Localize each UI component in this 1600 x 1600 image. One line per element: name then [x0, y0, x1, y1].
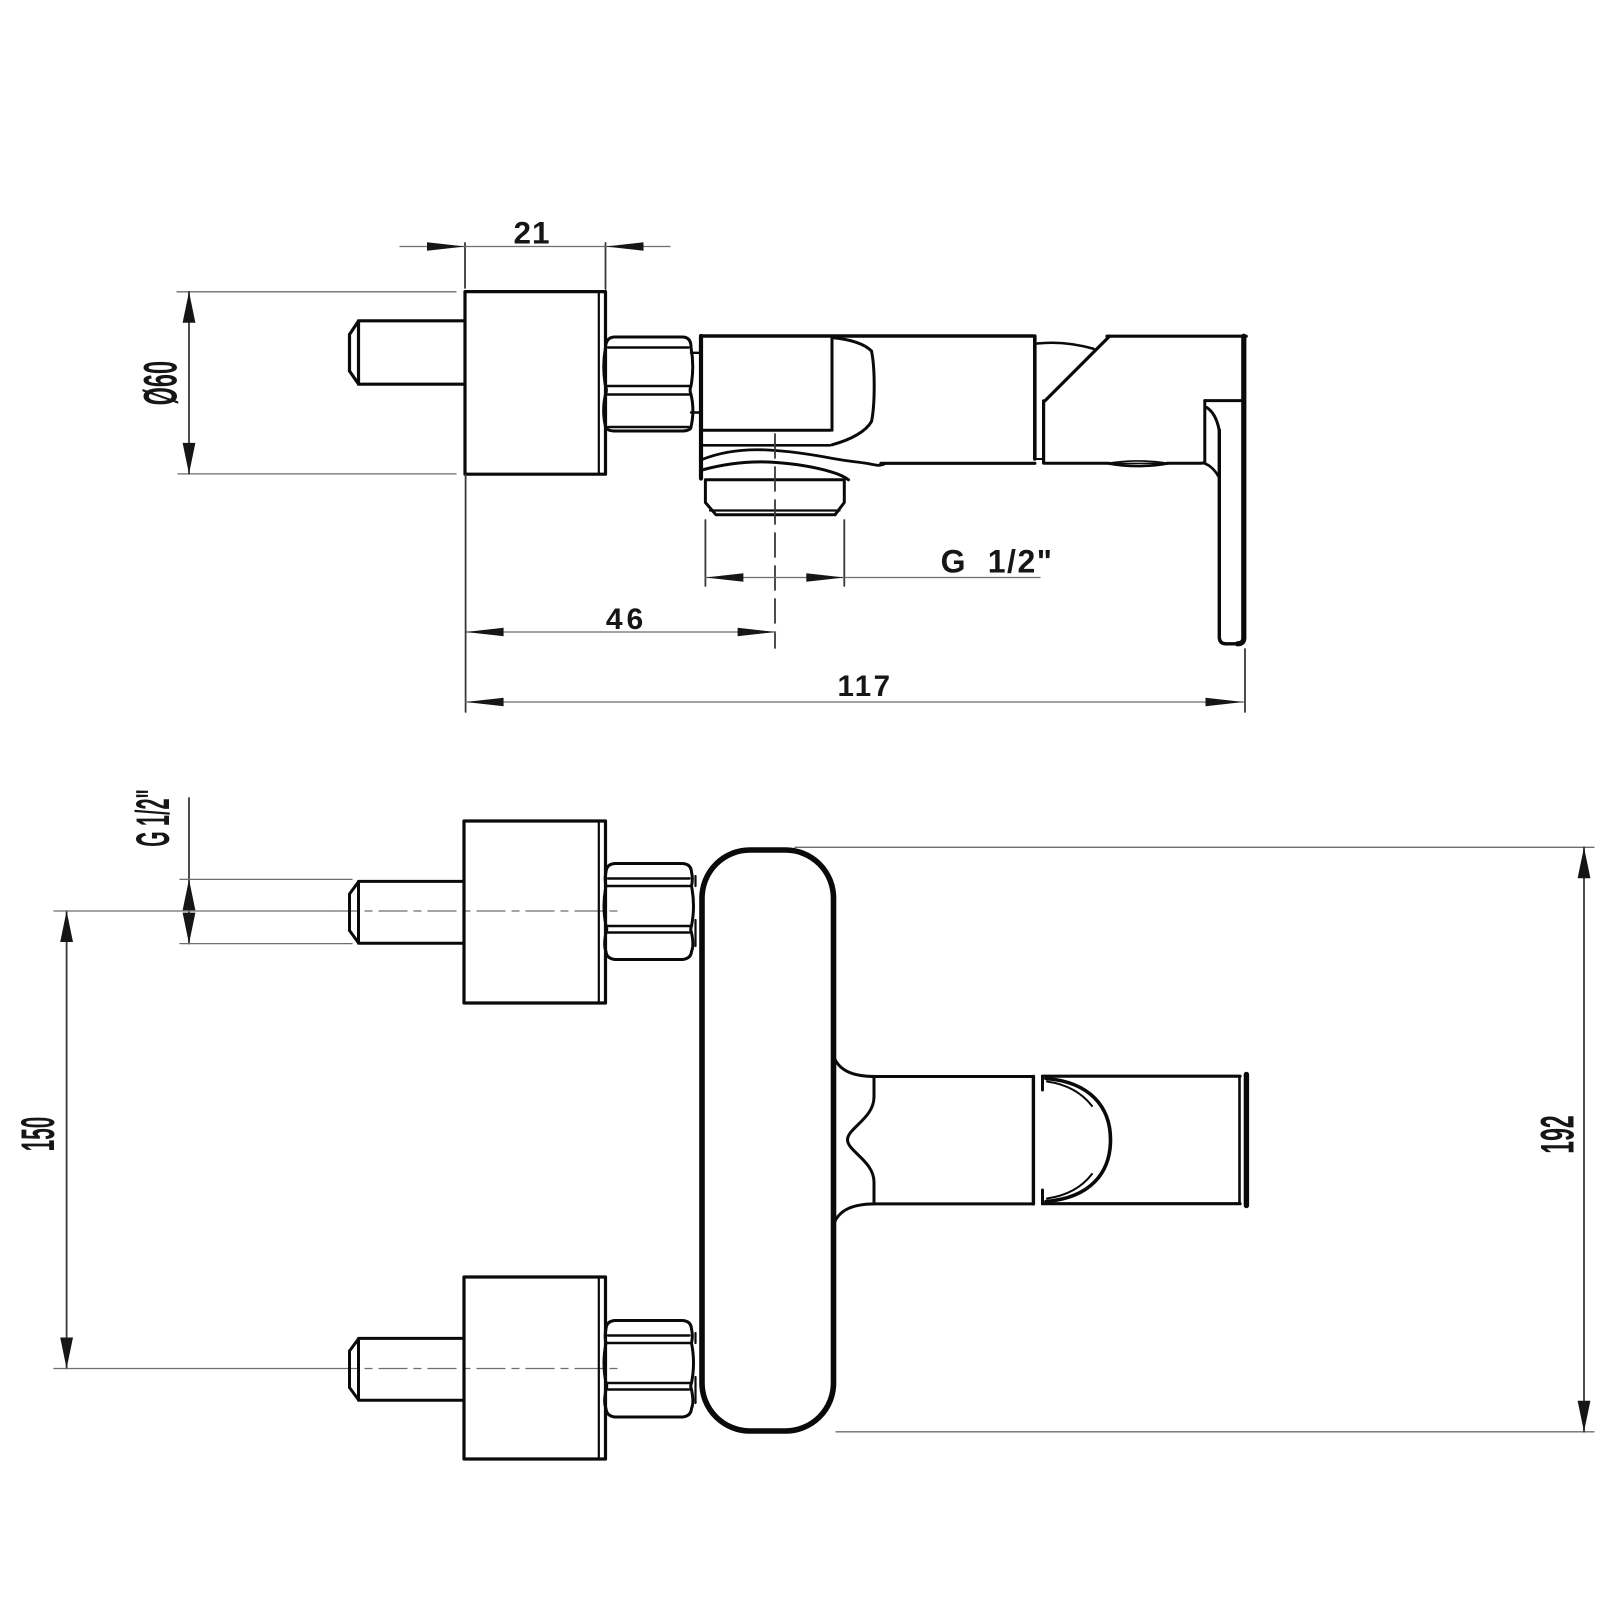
svg-text:G 1/2": G 1/2"	[126, 789, 179, 847]
dim 46 arrow right	[738, 628, 776, 636]
lever rod left end stubs	[1041, 1076, 1044, 1204]
lever dome inner arcs	[1047, 1082, 1092, 1199]
spout collar line	[703, 444, 830, 447]
lower inlet pipe stub	[350, 1338, 465, 1400]
dim 21 arrow left	[427, 242, 465, 250]
spout lower wave	[702, 462, 849, 480]
svg-text:21: 21	[513, 215, 550, 251]
wall flange (top view)	[465, 292, 606, 475]
dim 192 arrow up	[1578, 847, 1591, 878]
dim G 1/2 extension line bottom	[180, 943, 352, 945]
lever attach edge	[1203, 401, 1206, 463]
dim 46 arrow left	[466, 628, 504, 636]
main tube top edge	[701, 334, 1033, 337]
handle base lens detail	[1108, 461, 1169, 466]
dim 21 extension line right	[605, 243, 607, 289]
main tube bottom edge	[881, 462, 1035, 465]
dim 117 extension line right	[1244, 649, 1246, 712]
lower union nut	[604, 1321, 694, 1418]
valve inlet body right edge	[831, 336, 834, 430]
lever dome arc	[1046, 1079, 1111, 1202]
valve inlet body bottom edge	[701, 429, 830, 432]
upper wall flange	[464, 821, 606, 1003]
outlet thread (top view)	[705, 480, 844, 515]
lower thread stub	[694, 1333, 696, 1403]
body slab (rounded)	[702, 850, 834, 1431]
dim Ø60 extension line top	[177, 291, 456, 293]
lever rod top edge	[1043, 1075, 1241, 1078]
upper wall flange face line	[598, 821, 600, 1003]
handle step line	[1205, 399, 1243, 402]
dim 192 dimension line	[1583, 847, 1585, 1432]
svg-text:192: 192	[1531, 1115, 1583, 1153]
dim 117 arrow right	[1206, 698, 1244, 706]
dim Ø60 extension line bottom	[178, 473, 456, 475]
dim 192 arrow down	[1578, 1401, 1591, 1432]
wall flange front face line	[598, 292, 600, 475]
upper inlet pipe stub	[350, 881, 465, 943]
svg-text:150: 150	[11, 1117, 64, 1151]
lever inner edge	[1219, 430, 1237, 644]
lower wall flange face line	[598, 1277, 600, 1459]
dim 150 dimension line	[66, 911, 68, 1369]
lever end inner line	[1238, 1076, 1241, 1204]
dim G 1/2 extension line top	[180, 878, 352, 880]
outlet thread chamfer line	[710, 509, 840, 511]
dim 192 extension line top	[795, 846, 1594, 848]
neck bottom fillet and housing bottom edge	[834, 1204, 1033, 1225]
dim G 1/2 arrow up	[183, 879, 196, 910]
dim G 1/2 dimension line	[188, 798, 190, 944]
handle top edge	[1107, 335, 1246, 338]
lower centerline	[54, 1368, 330, 1370]
dim Ø60 arrow down	[183, 443, 196, 474]
outlet centerline (dashed)	[774, 434, 776, 648]
dim 150 arrow down	[60, 1338, 73, 1369]
lever base fillet	[1202, 463, 1218, 477]
inlet pipe stub (top view)	[350, 321, 466, 384]
dim 117 arrow left	[466, 698, 504, 706]
handle chamfer diagonal	[1045, 336, 1110, 401]
union nut face lines	[607, 348, 690, 428]
upper union nut	[604, 864, 694, 960]
lever corner curve	[1207, 408, 1219, 431]
dim 21 extension line left	[464, 243, 466, 288]
dim 117 extension line left	[465, 475, 467, 713]
svg-text:117: 117	[837, 670, 892, 703]
dim 117 dimension line	[466, 701, 1244, 703]
upper thread stub	[694, 876, 696, 946]
svg-text:46: 46	[606, 603, 647, 636]
valve inlet body (top view)	[699, 336, 703, 479]
neck top fillet and housing top edge	[834, 1056, 1033, 1077]
dim 21 arrow right	[606, 242, 644, 250]
tube end step	[1035, 458, 1044, 460]
dim 21 dimension line	[400, 246, 670, 248]
handle dome arc	[1037, 343, 1094, 349]
neck wave left edge	[847, 1078, 874, 1202]
dim Ø60 dimension line	[188, 292, 190, 474]
dim G 1/2 arrow down	[183, 913, 196, 944]
inlet barrel end cap	[832, 338, 874, 445]
dim G 1/2 arrow right	[806, 573, 844, 581]
union nut (top view)	[604, 337, 693, 431]
lower wall flange	[464, 1277, 606, 1459]
upper centerline	[54, 910, 330, 912]
cartridge housing right edge	[1032, 1077, 1035, 1204]
dim 46 dimension line	[466, 631, 776, 633]
svg-text:G 1/2": G 1/2"	[941, 544, 1054, 580]
upper union nut face lines	[608, 879, 691, 933]
handle base bottom edge	[1044, 462, 1201, 465]
lever outer edge (thick)	[1238, 336, 1244, 644]
dim Ø60 arrow up	[183, 292, 196, 323]
dim 150 arrow up	[60, 911, 73, 942]
spout upper wave	[702, 450, 885, 466]
thread stubs between nut and body	[691, 353, 700, 413]
lever rod bottom edge	[1043, 1202, 1241, 1205]
main tube right end	[1033, 336, 1037, 459]
dim G 1/2 dimension line	[705, 577, 1040, 579]
dim G 1/2 extension lines	[705, 520, 844, 586]
svg-text:Ø60: Ø60	[134, 361, 187, 405]
lever end outer edge (thick)	[1244, 1075, 1249, 1206]
dim 192 extension line bottom	[836, 1431, 1594, 1433]
handle left edge	[1042, 401, 1045, 463]
dim G 1/2 arrow left	[705, 573, 743, 581]
lower union nut face lines	[608, 1336, 691, 1390]
